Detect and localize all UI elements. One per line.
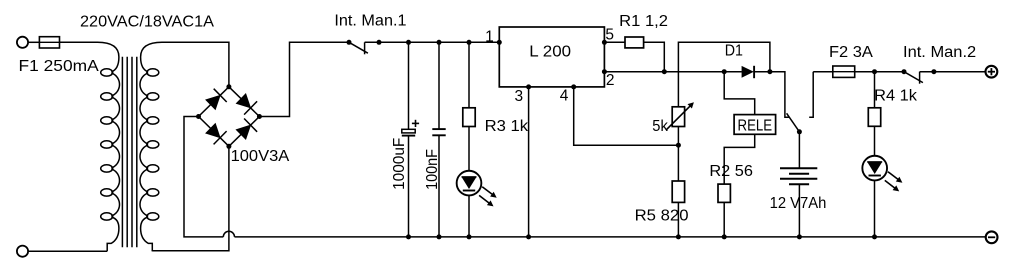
wire switch to L200 pin1	[365, 41, 500, 43]
wire relay coil bottom	[724, 134, 755, 184]
junction pin5	[602, 40, 607, 45]
svg-text:Int. Man.2: Int. Man.2	[903, 44, 976, 61]
wire secondary bottom to bridge	[152, 146, 229, 251]
switch Int.Man.1 blade	[349, 42, 368, 53]
svg-text:1000uF: 1000uF	[391, 138, 408, 190]
junction C2 top	[437, 40, 442, 45]
label plus C1	[412, 122, 419, 124]
junction bridge top	[226, 84, 231, 89]
wire pin5 to R1	[604, 41, 625, 43]
wire hop over AC wire	[223, 231, 234, 237]
wire pin3 to ground rail	[528, 87, 530, 237]
junction pin2	[602, 69, 607, 74]
LED D3	[862, 156, 887, 181]
bridge diode bottom-right	[236, 125, 250, 139]
transformer core	[121, 57, 123, 248]
svg-text:1: 1	[485, 28, 494, 45]
svg-text:L 200: L 200	[529, 43, 571, 60]
wire terminal to fuse F1	[28, 41, 40, 43]
junction R3 top	[467, 40, 472, 45]
svg-text:D1: D1	[725, 43, 743, 60]
switch Int.Man.1 right contact	[364, 42, 366, 54]
junction pin3 rail	[526, 234, 531, 239]
svg-text:Int. Man.1: Int. Man.1	[334, 13, 406, 30]
bridge diode top-right	[237, 94, 251, 108]
svg-text:3: 3	[515, 88, 524, 105]
resistor R2	[718, 184, 730, 202]
junction LED2 rail	[872, 234, 877, 239]
relay RELE box	[734, 115, 776, 135]
svg-text:R5 820: R5 820	[635, 208, 689, 225]
op-amp U1 L200 box	[499, 27, 604, 87]
wire R1 to pin2 node	[644, 42, 665, 71]
wire bridge minus down	[184, 117, 223, 237]
pot arrow	[666, 105, 691, 130]
junction R5 rail	[676, 234, 681, 239]
relay switch blade	[787, 113, 800, 132]
wire F2 to switch2	[855, 71, 904, 73]
wire pin4 to pot node	[574, 87, 679, 145]
junction C2 bottom	[437, 234, 442, 239]
wire secondary top to bridge	[162, 42, 229, 87]
junction D1 cathode node	[767, 69, 772, 74]
bridge diode left-bottom	[206, 124, 220, 138]
wire LED2 to rail	[874, 180, 876, 237]
svg-text:100V3A: 100V3A	[231, 148, 290, 165]
junction R3 branch bottom	[467, 234, 472, 239]
junction R1 pin2	[662, 69, 667, 74]
wire to D1 anode	[724, 71, 742, 73]
wire D1 cathode	[754, 71, 770, 73]
junction pin3	[526, 84, 531, 89]
wire C1 top	[408, 42, 410, 129]
capacitor C2 100nF	[432, 128, 445, 130]
wire bottom rail	[235, 236, 986, 238]
potentiometer 5k	[672, 107, 684, 127]
junction C1 top	[406, 40, 411, 45]
junction pot R5 node	[676, 143, 681, 148]
fuse F2	[833, 66, 855, 77]
svg-text:R2 56: R2 56	[709, 163, 753, 180]
wire D1 node to relay contact	[770, 72, 789, 118]
junction battery rail	[797, 234, 802, 239]
junction R2 rail	[722, 234, 727, 239]
svg-text:12 V7Ah: 12 V7Ah	[770, 195, 827, 212]
wire switch2 to plus terminal	[920, 71, 986, 73]
resistor R4	[868, 108, 880, 127]
wire R2 to rail	[723, 202, 725, 237]
wire fuse F1 to primary	[60, 41, 98, 43]
resistor R5	[672, 181, 684, 202]
wire pin2 to D1 node	[604, 71, 724, 73]
resistor R3	[463, 108, 475, 127]
wire R4 top	[874, 72, 876, 108]
transformer primary winding	[98, 42, 119, 72]
wire pot to R5	[677, 127, 679, 182]
wire blade to battery	[798, 132, 800, 169]
junction bridge left	[196, 114, 201, 119]
wire pot top bypass	[678, 42, 770, 107]
wire relay coil top	[724, 72, 755, 115]
svg-text:R3 1k: R3 1k	[485, 118, 529, 135]
junction pin1	[497, 40, 502, 45]
switch Int.Man.2 right contact	[919, 72, 921, 84]
wire R3 to LED1	[468, 127, 470, 172]
wire primary bottom to terminal	[28, 250, 107, 252]
svg-text:F1 250mA: F1 250mA	[19, 58, 100, 75]
LED D2	[457, 171, 482, 196]
wire battery to rail	[798, 184, 800, 237]
terminal output plus	[986, 66, 998, 78]
wire R3 top	[468, 42, 470, 108]
junction bridge bottom	[226, 144, 231, 149]
junction relay blade pivot	[797, 129, 802, 134]
wire R5 to rail	[677, 202, 679, 237]
junction pin4	[571, 84, 576, 89]
bridge rectifier frame	[199, 87, 260, 147]
svg-text:220VAC/18VAC1A: 220VAC/18VAC1A	[80, 13, 215, 30]
wire C1 bottom	[408, 136, 410, 237]
svg-text:2: 2	[606, 72, 615, 89]
svg-text:5k: 5k	[652, 118, 668, 135]
svg-text:R4 1k: R4 1k	[874, 88, 917, 105]
wire F2 rail to relay contact	[809, 72, 813, 118]
wire LED1 bottom	[468, 196, 470, 237]
terminal input top	[17, 37, 28, 48]
battery B1	[780, 167, 817, 169]
resistor R1	[625, 37, 644, 48]
svg-text:R1 1,2: R1 1,2	[619, 13, 668, 30]
terminal input bottom	[17, 246, 28, 257]
wire C2 bottom	[438, 135, 440, 237]
switch Int.Man.2 left contact	[902, 69, 907, 74]
wire R4 to LED2	[874, 126, 876, 156]
switch Int.Man.2 blade	[904, 72, 923, 83]
svg-text:5: 5	[605, 27, 614, 44]
transformer secondary winding	[141, 42, 162, 72]
svg-text:RELE: RELE	[738, 118, 773, 135]
diode D1	[742, 66, 754, 78]
capacitor C1 1000uF	[402, 129, 415, 133]
junction bridge right	[257, 114, 262, 119]
fuse F1	[39, 37, 59, 48]
bridge diode left-top	[206, 96, 220, 110]
terminal output minus	[986, 231, 998, 243]
wire C2 top	[438, 42, 440, 129]
junction R4 top	[872, 69, 877, 74]
junction D1 anode node	[722, 69, 727, 74]
svg-text:F2 3A: F2 3A	[829, 44, 874, 61]
switch Int.Man.1 left contact	[347, 40, 352, 45]
wire bridge plus up	[259, 42, 349, 116]
svg-text:4: 4	[560, 87, 569, 104]
junction C1 bottom	[406, 234, 411, 239]
wire relay to F2	[813, 71, 833, 73]
